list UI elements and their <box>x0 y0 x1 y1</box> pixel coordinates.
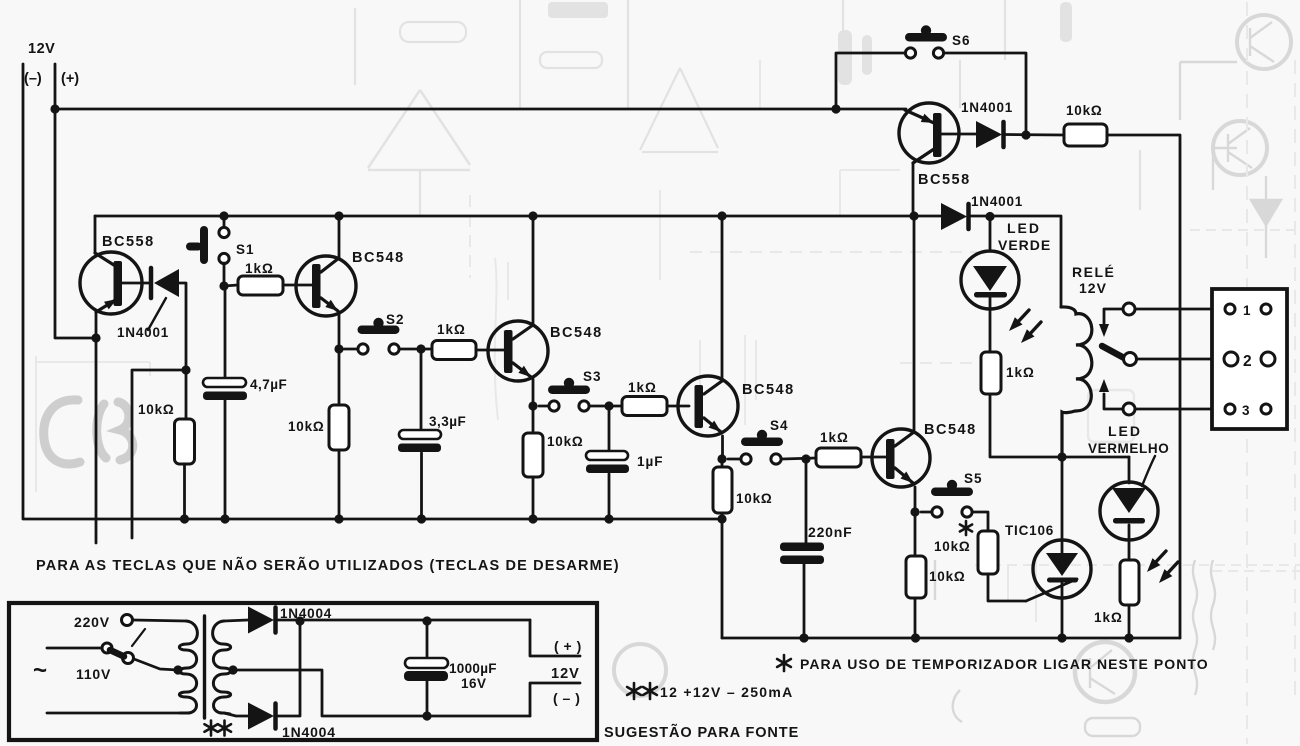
junction S2 output node <box>416 344 425 353</box>
wire Q6 collector down to rail <box>912 163 915 216</box>
junction R9 ground <box>911 633 920 642</box>
wire LED vermelho to R13 <box>1128 525 1131 560</box>
callout line LED vermelho <box>1142 456 1155 486</box>
LED verde <box>989 216 992 251</box>
svg-text:4,7µF: 4,7µF <box>250 377 287 392</box>
resistor R3 10k (S2 node pulldown) <box>329 405 349 450</box>
junction R13 ground <box>1124 633 1133 642</box>
svg-text:BC548: BC548 <box>550 325 603 341</box>
svg-text:1N4004: 1N4004 <box>282 724 336 740</box>
svg-text:BC548: BC548 <box>742 382 795 398</box>
wire AC input bottom <box>47 712 180 715</box>
svg-text:1kΩ: 1kΩ <box>820 430 849 445</box>
junction left ground rail end <box>717 514 726 523</box>
wire top +12V rail <box>55 108 906 111</box>
wire R6 to Q4 base <box>667 405 689 408</box>
wire Q1 base to diode D1 <box>122 282 150 285</box>
wire secondary top to D4 <box>224 620 248 621</box>
wire Q2 emitter down to S2 node <box>338 312 341 349</box>
wire Q6 base to diode D2 <box>941 133 976 136</box>
transistor Q3 BC548 <box>528 211 537 220</box>
wire S6 left contact to +12V rail <box>836 53 905 109</box>
wire S4 right contact to node <box>782 458 816 459</box>
svg-text:220V: 220V <box>74 614 110 630</box>
svg-text:220nF: 220nF <box>808 524 852 540</box>
terminal block 1-2-3 <box>1212 289 1287 429</box>
capacitor C5 1000uF 16V <box>422 616 431 625</box>
diode D4 1N4004 top <box>248 607 274 634</box>
switch 110/220 selector <box>122 615 133 626</box>
svg-text:10kΩ: 10kΩ <box>934 539 971 554</box>
svg-text:10kΩ: 10kΩ <box>736 491 773 506</box>
switch S2 pushbutton <box>373 318 383 328</box>
callout line to D1 <box>148 298 166 330</box>
diode D1 1N4001 at Q1 base <box>149 268 154 298</box>
svg-text:S4: S4 <box>770 418 789 433</box>
wire to S5 left contact <box>921 511 931 514</box>
junction S6 return / D2 cathode <box>1021 130 1030 139</box>
wire tecla branch line <box>132 370 186 538</box>
relay contact arm top (arrow down) <box>1104 309 1123 324</box>
wire AC input top <box>47 647 102 650</box>
wire 220V tap to primary <box>133 620 186 621</box>
wire R4 to Q3 base <box>476 349 504 352</box>
switch S6 pushbutton <box>921 25 931 35</box>
transistor Q5 BC548 <box>909 211 918 220</box>
power supply box outline <box>9 603 597 740</box>
svg-text:12 +12V – 250mA: 12 +12V – 250mA <box>660 684 794 700</box>
svg-text:S5: S5 <box>964 471 983 486</box>
wire rail from D3 cathode to relay coil top <box>968 216 1061 307</box>
svg-text:~: ~ <box>33 657 48 684</box>
wire R11 to right-side vertical down to ground rail <box>1107 135 1180 638</box>
svg-text:( – ): ( – ) <box>553 690 580 706</box>
svg-text:LED: LED <box>1108 423 1142 439</box>
svg-text:10kΩ: 10kΩ <box>547 434 584 449</box>
relay moving lever <box>1102 346 1126 359</box>
resistor R10 10k (TIC106 gate) <box>978 531 998 574</box>
LED vermelho <box>1128 457 1131 483</box>
junction TIC106 ground <box>1057 633 1066 642</box>
svg-text:1N4001: 1N4001 <box>961 100 1013 115</box>
svg-text:S3: S3 <box>583 369 602 384</box>
svg-text:10kΩ: 10kΩ <box>288 419 325 434</box>
svg-text:12V: 12V <box>551 666 580 682</box>
wire R12 down and across to LED vermelho <box>990 394 1129 457</box>
LED vermelho light arrows <box>1153 551 1166 565</box>
junction Q5 emitter node <box>910 507 919 516</box>
wire S1 node down to C1 <box>224 286 227 378</box>
wire center tap to negative output <box>233 670 530 716</box>
svg-text:BC558: BC558 <box>918 172 971 188</box>
svg-text:(–): (–) <box>24 71 42 87</box>
wire Q3 emitter to S3 node <box>532 379 535 406</box>
svg-text:110V: 110V <box>76 666 111 682</box>
wire relay NC contact to terminal 1 <box>1135 308 1225 311</box>
svg-text:1: 1 <box>1243 303 1252 318</box>
wire S5 right contact to gate resistor <box>973 512 988 531</box>
junction Q4 emitter node <box>717 454 726 463</box>
svg-text:1kΩ: 1kΩ <box>1006 365 1035 380</box>
wire relay common to terminal 2 <box>1137 358 1224 361</box>
wire S2 right contact to node <box>400 348 432 351</box>
transformer T1 secondary <box>213 621 231 714</box>
wire to S3 left contact <box>539 405 548 408</box>
svg-text:1N4001: 1N4001 <box>971 194 1023 209</box>
junction C4 ground <box>799 633 808 642</box>
wire R10 to TIC106 gate <box>988 574 1026 601</box>
transistor Q6 BC558 <box>899 103 959 163</box>
transformer T1 primary <box>179 621 197 713</box>
capacitor C2 3,3uF <box>420 349 423 430</box>
svg-text:LED: LED <box>1007 220 1041 236</box>
wire secondary bottom to D5 <box>224 713 248 716</box>
resistor R6 1k (Q4 base) <box>622 397 667 416</box>
svg-text:12V: 12V <box>28 41 55 57</box>
wire 110V tap to primary <box>134 659 178 670</box>
junction Q2 emitter node <box>334 344 343 353</box>
junction Q1 emitter / (+) lead <box>91 333 100 342</box>
svg-text:1kΩ: 1kΩ <box>437 322 466 337</box>
capacitor C3 1uF <box>608 406 611 451</box>
transformer T1 core <box>203 616 206 718</box>
svg-text:BC558: BC558 <box>102 234 155 250</box>
switch S3 pushbutton <box>564 378 574 388</box>
svg-text:PARA AS TECLAS QUE NÃO SERÃO U: PARA AS TECLAS QUE NÃO SERÃO UTILIZADOS … <box>36 556 620 574</box>
svg-text:10kΩ: 10kΩ <box>138 402 175 417</box>
wire D5 cathode up to positive node <box>278 621 300 716</box>
wire R7 to lower ground rail <box>721 513 724 638</box>
svg-text:12V: 12V <box>1079 280 1107 296</box>
junction S6 on +12V rail <box>831 104 840 113</box>
wire R13 to ground rail <box>1128 605 1131 638</box>
resistor R8 1k (Q5 base) <box>816 448 861 467</box>
switch S1 pushbutton <box>200 226 208 264</box>
asterisk-asterisk transformer marker <box>205 721 218 736</box>
svg-text:PARA USO DE TEMPORIZADOR LIGAR: PARA USO DE TEMPORIZADOR LIGAR NESTE PON… <box>800 656 1209 672</box>
wire to S2 left contact <box>344 348 357 351</box>
wire D2 to R11 <box>1005 133 1064 136</box>
wire Q4 emitter to S4 node <box>721 436 724 459</box>
switch S5 pushbutton <box>947 480 957 490</box>
wire D1 anode down to R1 <box>179 283 186 419</box>
svg-text:VERMELHO: VERMELHO <box>1088 441 1169 456</box>
svg-text:1kΩ: 1kΩ <box>628 380 657 395</box>
junction S1 output node <box>219 281 228 290</box>
resistor R9 10k (Q5 emitter pulldown) <box>906 556 926 598</box>
wire positive output stub <box>530 620 580 656</box>
wire C3 to ground <box>608 474 611 519</box>
svg-text:S1: S1 <box>236 242 255 257</box>
resistor R11 10k <box>1064 124 1107 146</box>
capacitor C4 220nF <box>805 459 808 543</box>
svg-text:TIC106: TIC106 <box>1005 523 1054 538</box>
svg-text:S6: S6 <box>952 33 971 48</box>
wire to S4 left contact <box>728 458 740 461</box>
svg-text:BC548: BC548 <box>924 422 977 438</box>
resistor R13 1k (LED vermelho) <box>1120 560 1139 605</box>
wire C2 to ground <box>420 453 423 519</box>
svg-text:10kΩ: 10kΩ <box>929 569 966 584</box>
svg-text:S2: S2 <box>386 312 405 327</box>
svg-text:1kΩ: 1kΩ <box>245 261 274 276</box>
junction +12V rail start <box>50 104 59 113</box>
diode D2 1N4001 at Q6 base <box>976 121 1002 148</box>
junction S3 output node <box>604 401 613 410</box>
junction C1 ground <box>220 514 229 523</box>
junction R1 ground <box>180 514 189 523</box>
wire R3 to ground <box>338 450 341 519</box>
diode D3 1N4001 feeding LED verde <box>941 203 967 230</box>
wire R2 to Q2 base <box>283 284 312 287</box>
wire R5 to ground <box>532 477 535 519</box>
svg-text:1µF: 1µF <box>637 454 664 469</box>
junction TIC106 anode node <box>1057 452 1066 461</box>
junction C3 ground <box>604 514 613 523</box>
wire positive lead down to BC558 Q1 emitter <box>55 64 96 338</box>
asterisk marker at S5 <box>960 521 972 535</box>
wire node to R2 <box>224 285 238 286</box>
thyristor U1 TIC106 <box>1061 457 1064 554</box>
svg-text:1kΩ: 1kΩ <box>1094 610 1123 625</box>
svg-text:VERDE: VERDE <box>998 237 1051 253</box>
wire node to R3 <box>338 349 341 405</box>
wire Q5 emitter to S5 node <box>914 487 917 512</box>
relay contact arm bottom (arrow up) <box>1104 394 1123 409</box>
svg-text:10kΩ: 10kΩ <box>1066 103 1103 118</box>
svg-text:RELÉ: RELÉ <box>1072 264 1115 280</box>
wire Q1 emitter key line (tecla) <box>95 313 98 543</box>
relay RELE 12V coil <box>1061 307 1092 457</box>
wire LED verde to R12 <box>989 298 992 352</box>
wire R8 to Q5 base <box>861 456 886 459</box>
diode D5 1N4004 bottom <box>248 703 274 730</box>
wire S1 upper contact <box>223 216 226 227</box>
resistor R4 1k (Q3 base) <box>432 341 476 360</box>
resistor R5 10k (S3 node pulldown) <box>523 433 543 477</box>
junction 110V tap on primary <box>173 665 182 674</box>
svg-text:3,3µF: 3,3µF <box>429 414 466 429</box>
wire C4 to lower ground rail <box>803 564 806 638</box>
svg-text:1000µF: 1000µF <box>449 661 497 676</box>
junction secondary center tap <box>228 665 237 674</box>
svg-text:BC548: BC548 <box>352 250 405 266</box>
wire negative rail: left vertical and bottom ground rail <box>23 64 722 519</box>
junction D1 node / tecla branch <box>181 365 190 374</box>
wire relay NO contact to terminal 3 <box>1135 408 1225 411</box>
junction LED verde node <box>985 212 994 221</box>
wire TIC106 cathode to ground rail <box>1061 581 1064 638</box>
svg-text:1N4001: 1N4001 <box>117 325 169 340</box>
svg-text:( + ): ( + ) <box>554 638 582 654</box>
svg-text:3: 3 <box>1242 403 1251 418</box>
junction R5 ground <box>528 514 537 523</box>
transistor Q1 BC558 <box>94 216 97 252</box>
svg-text:SUGESTÃO PARA FONTE: SUGESTÃO PARA FONTE <box>604 723 799 741</box>
resistor R1 10k (Q1 node to ground) <box>175 419 195 464</box>
junction R3 ground <box>334 514 343 523</box>
wire S3 right contact to node <box>590 405 622 408</box>
svg-text:16V: 16V <box>461 676 487 691</box>
svg-text:2: 2 <box>1243 353 1253 370</box>
junction S4 output node <box>801 454 810 463</box>
junction Q3 emitter node <box>528 401 537 410</box>
asterisk-asterisk marker <box>627 683 641 699</box>
junction D5 on positive rail <box>295 616 304 625</box>
wire second rail from Q1 collector to diode D3 <box>95 215 941 218</box>
junction C2 ground <box>417 514 426 523</box>
resistor R12 1k (LED verde) <box>981 352 1001 394</box>
junction S1 top on rail <box>219 211 228 220</box>
transistor Q4 BC548 <box>717 211 726 220</box>
asterisk note marker <box>777 655 791 671</box>
LED verde light arrows <box>1016 310 1029 324</box>
capacitor C1 4,7uF <box>203 378 246 387</box>
svg-text:(+): (+) <box>61 71 79 87</box>
wire S6 right contact down to D2 node <box>944 53 1026 135</box>
switch S4 pushbutton <box>757 430 767 440</box>
transistor Q2 BC548 <box>334 211 343 220</box>
wire lower right ground rail <box>722 637 1180 640</box>
wire C1 to ground rail <box>224 400 227 519</box>
resistor R2 1k (Q2 base) <box>238 276 283 295</box>
wire S1 lower contact to node <box>223 263 226 286</box>
wire R1 to ground rail <box>183 464 186 519</box>
wire negative output stub <box>530 683 580 716</box>
wire R9 to ground rail <box>914 598 917 638</box>
wire D4 cathode to positive node <box>278 619 530 622</box>
resistor R7 10k (S4 node pulldown) <box>713 467 732 513</box>
